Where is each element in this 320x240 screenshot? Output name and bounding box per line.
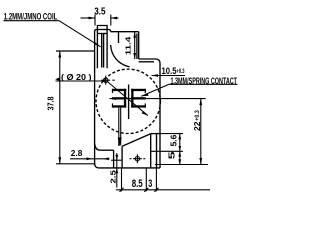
dim 2.5 arrow top [115,155,118,160]
dia 20 shelf left arrow [55,77,59,81]
body right edge [159,64,161,169]
hole box left verticals [121,146,123,168]
dim 11.4 arrow top [133,32,136,38]
comb left mid bar [112,97,126,99]
center target h arm [101,79,110,81]
dia 20 diagonal leader [107,81,148,116]
dim 2.8 arrow left [87,157,93,160]
svg-text:3: 3 [148,178,152,190]
center target v arm [105,76,107,85]
svg-text:3.5: 3.5 [94,5,105,17]
comb right bottom bar [131,105,146,107]
spring contact arrow [141,93,148,96]
dim 3.5 ext line left [94,15,96,26]
center target circle [104,78,108,82]
comb left spine [124,89,126,108]
tab outer left wall [95,30,97,166]
bottom ext line 2 [145,168,147,191]
dim 5 arrow bottom [178,159,181,164]
dim 3.5 arrow left [89,17,96,20]
coil label leader [59,21,101,47]
svg-text:11.4: 11.4 [124,36,133,55]
dim 37.8 line [59,51,61,164]
base inner left vertical [113,150,115,168]
dim 22 line [200,99,202,165]
vertical centerline [128,85,130,120]
dim 22 top ext line [110,98,206,100]
fillet arc tab to dome [111,45,130,67]
comb right mid bar [131,97,146,99]
comb left top bar [112,89,126,91]
comb left end hooks [112,89,113,93]
dim 2.8 arrow right [103,157,109,160]
dim 2.5 arrow bottom [115,168,118,173]
body top edge right [111,31,139,33]
dim 37.8 arrow bottom [58,157,61,164]
bottom ext line 3 [155,168,157,191]
svg-text:2.8: 2.8 [71,149,83,158]
center target side dash [112,79,115,81]
dim 22 bottom ext line [155,164,208,166]
left wall foot corner [95,163,99,168]
dim 2.8 line [70,158,110,160]
bottom ext line 1 [121,168,123,191]
svg-text:5.6: 5.6 [169,134,179,146]
tab outer top edge [96,29,108,31]
comb right top bar [131,89,146,91]
body right upper wall inner [136,34,138,60]
spring contact underline [169,83,238,85]
bottom edge [99,167,161,169]
svg-text:8.5: 8.5 [132,178,143,190]
inner wall stub [118,32,120,43]
coil label arrow [94,42,100,47]
dim 2.5 ext [111,159,122,161]
base inner shelf [101,149,114,151]
coil wire section right [103,34,105,68]
comb right spine [131,89,133,108]
slanted step edge [122,134,151,147]
dim 3.5 ext line right [110,15,112,26]
comb left bottom bar [112,105,126,107]
step inner edge [139,61,154,63]
step top edge [139,58,156,60]
dia 20 arrow [142,111,148,116]
tick 1 [120,188,124,192]
dim 10.5 line [152,75,186,77]
coil slot inner top edge [97,33,107,35]
left foot inner arc [95,144,101,150]
tab outer right wall [109,30,111,32]
svg-text:+0.3: +0.3 [194,110,201,121]
left shoulder edge [56,50,95,52]
dim 11.4 line [134,32,136,59]
dim 5.6 ext line top [160,133,183,135]
tick 3 [154,188,158,192]
coil slot inner rect [97,26,107,69]
dim 5 arrow mid down [178,151,181,156]
dim 37.8 arrow top [58,51,61,58]
spring contact leader [141,84,169,96]
svg-text:5: 5 [167,151,176,160]
dim 2.5 line [116,153,118,188]
coil label underline [4,20,60,22]
svg-text:+0.3: +0.3 [177,69,185,75]
mounting hole crosshair [130,154,146,163]
tick 2 [144,188,148,192]
dim 5.6 arrow mid up [178,146,181,151]
dim 3.5 arrow right [111,17,117,20]
dim 22 top ext arrow [110,97,117,100]
dia 20 shelf [56,80,106,82]
dim 3.5 line left [81,17,96,19]
dim 5.6 arrow top [178,134,181,140]
bottom dim line [116,189,210,191]
contact tail [119,108,121,146]
coil wire section left [101,34,103,68]
dim 11.4 arrow bottom [133,53,136,59]
dim 10.5 arrow [152,74,159,77]
dim 22 arrow bottom [199,158,202,165]
spring contact comb [112,89,146,108]
dim 22 arrow top [199,99,202,106]
battery circle dashed [96,69,160,133]
dim 5.6 ext line mid [151,150,183,152]
dim 37.8 bottom ext [56,163,95,165]
dim 3.5 line right [111,17,119,19]
right step top edge [151,133,160,135]
body right upper wall outer [138,32,140,59]
comb right end hooks [145,89,146,93]
contact tail tip [118,138,122,147]
step corner arc [156,59,161,64]
dim 5.6 dim line [179,134,181,165]
svg-text:37.8: 37.8 [46,96,56,110]
right step verticals [150,134,152,168]
